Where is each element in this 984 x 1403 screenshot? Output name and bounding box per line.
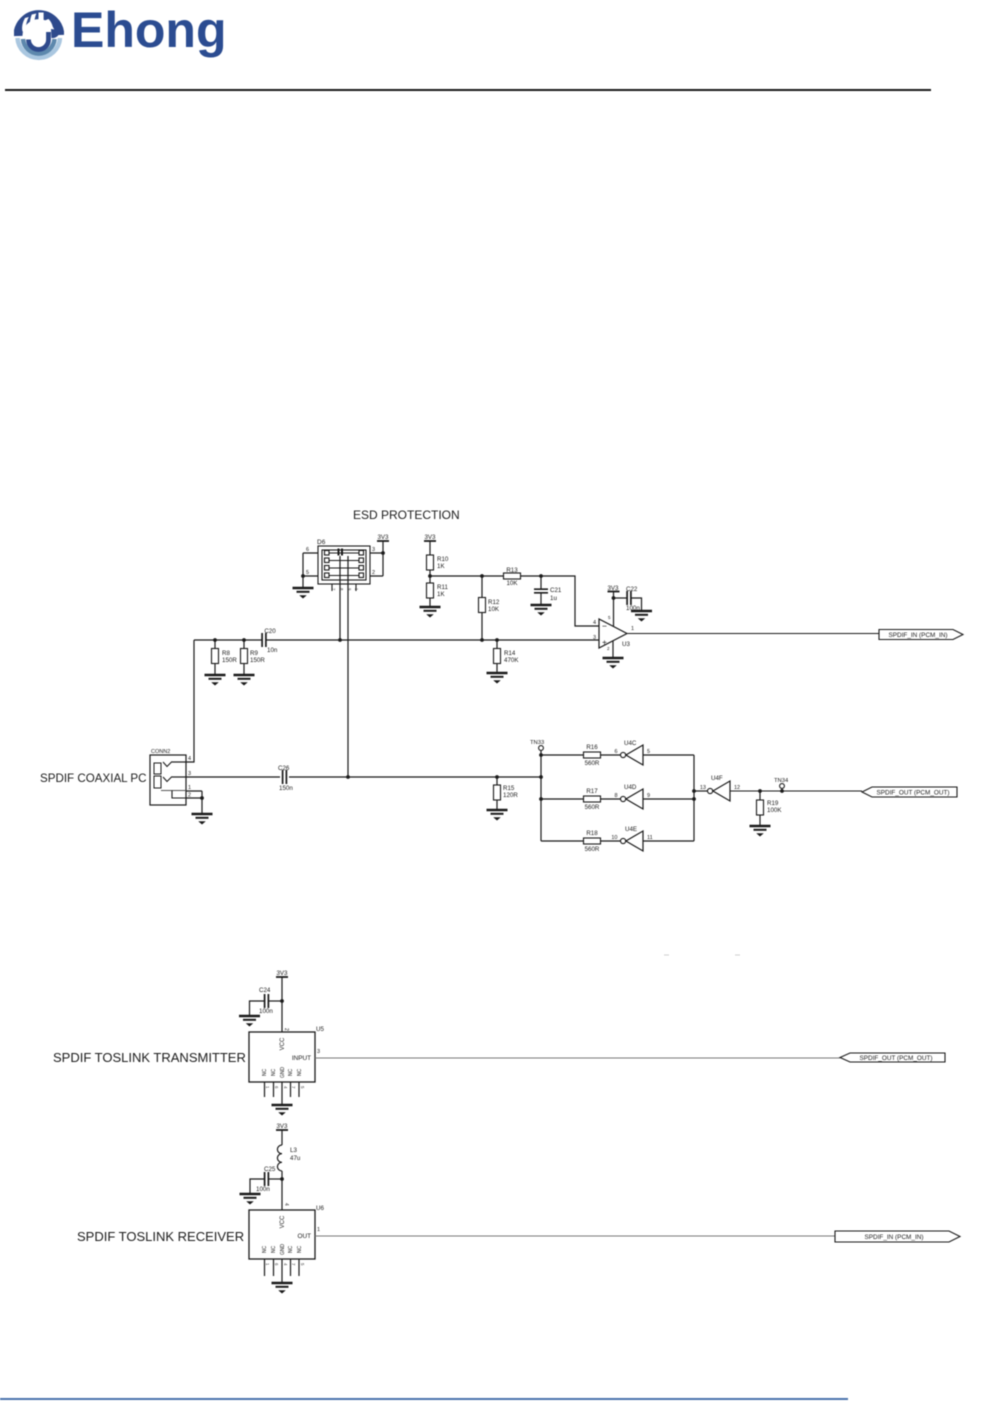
svg-text:100K: 100K	[767, 807, 782, 814]
svg-text:7: 7	[291, 1263, 296, 1266]
svg-text:R8: R8	[222, 650, 230, 657]
resistor R19	[757, 791, 783, 826]
stray mark 2	[735, 954, 740, 956]
ground R11	[420, 607, 441, 618]
node U5 vcc	[280, 999, 284, 1003]
svg-text:SPDIF TOSLINK TRANSMITTER: SPDIF TOSLINK TRANSMITTER	[53, 1050, 246, 1065]
node R12 top	[480, 574, 484, 578]
U5 bottom pin numbers	[265, 1086, 305, 1089]
capacitor C21	[534, 576, 562, 605]
U6 bottom pins	[265, 1259, 300, 1283]
wire D6 left pins	[303, 553, 318, 588]
node R9	[242, 638, 246, 642]
node U6 vcc	[280, 1177, 284, 1181]
U5 bottom pins	[265, 1082, 300, 1105]
svg-text:1K: 1K	[437, 591, 445, 598]
svg-text:SPDIF_OUT (PCM_OUT): SPDIF_OUT (PCM_OUT)	[859, 1055, 932, 1062]
top rule	[5, 89, 931, 91]
svg-text:12: 12	[734, 785, 740, 791]
svg-text:8: 8	[614, 793, 617, 799]
svg-text:560R: 560R	[585, 760, 600, 767]
ground U5	[272, 1105, 293, 1116]
net flag SPDIF_OUT (PCM_OUT)	[862, 787, 957, 797]
svg-text:100n: 100n	[256, 1186, 270, 1193]
svg-text:R11: R11	[437, 584, 448, 591]
node R8	[213, 638, 217, 642]
capacitor C20	[262, 628, 278, 654]
resistor R18	[584, 830, 601, 853]
net flag SPDIF_IN (PCM_IN)	[879, 630, 963, 640]
ground R15	[487, 810, 508, 821]
wire R13 to comparator minus	[521, 576, 600, 626]
capacitor C26	[278, 765, 293, 792]
svg-text:10K: 10K	[506, 580, 518, 587]
svg-text:13: 13	[700, 785, 706, 791]
power 3V3 (U5)	[276, 970, 288, 1032]
svg-text:NC: NC	[288, 1245, 294, 1253]
ground D6	[293, 588, 314, 599]
svg-text:NC: NC	[297, 1245, 303, 1253]
svg-text:11: 11	[647, 835, 653, 841]
svg-text:6: 6	[614, 749, 617, 755]
capacitor C24	[250, 987, 283, 1016]
svg-text:9: 9	[647, 793, 650, 799]
svg-text:NC: NC	[271, 1245, 277, 1253]
svg-text:1: 1	[265, 1086, 270, 1089]
ground R19	[750, 826, 771, 837]
svg-text:1: 1	[265, 1263, 270, 1266]
svg-text:10: 10	[611, 835, 617, 841]
svg-text:560R: 560R	[585, 846, 600, 853]
svg-text:OUT: OUT	[298, 1233, 312, 1240]
wire lower signal net right part	[289, 776, 541, 778]
svg-text:GND: GND	[280, 1067, 286, 1079]
node R19 top	[758, 789, 762, 793]
logo icon	[14, 8, 64, 64]
wire U3 output to flag	[627, 633, 879, 635]
CONN2 pin numbers	[188, 756, 191, 799]
U6 bottom NC/GND labels	[262, 1244, 303, 1256]
node upper net / D6 branch	[338, 638, 342, 642]
wire upper signal net left part	[194, 639, 262, 641]
test point TN33	[530, 740, 544, 750]
svg-text:10n: 10n	[267, 647, 278, 654]
node lower net / D6 branch	[346, 775, 350, 779]
svg-text:NC: NC	[297, 1068, 303, 1076]
svg-text:4: 4	[188, 756, 191, 762]
ground C21	[531, 605, 552, 616]
svg-text:3V3: 3V3	[377, 534, 389, 541]
svg-text:SPDIF_IN (PCM_IN): SPDIF_IN (PCM_IN)	[889, 632, 948, 639]
capacitor C25	[250, 1166, 282, 1194]
svg-text:5: 5	[647, 749, 650, 755]
wire CONN2 pins 1,2 to ground	[186, 791, 202, 814]
ground R8	[205, 675, 226, 686]
svg-text:2: 2	[372, 570, 375, 576]
svg-text:SPDIF TOSLINK RECEIVER: SPDIF TOSLINK RECEIVER	[77, 1229, 244, 1244]
node R15 top	[495, 775, 499, 779]
inverter U4D	[614, 784, 650, 809]
node R14 top	[495, 638, 499, 642]
wire bus to U4F	[694, 790, 708, 792]
ground C24	[239, 1016, 260, 1027]
svg-text:150R: 150R	[250, 657, 265, 664]
inverter U4F	[700, 775, 740, 801]
svg-text:R17: R17	[586, 788, 598, 795]
wire R17 to U4D	[601, 798, 621, 800]
resistor R8	[212, 640, 238, 675]
resistor R11	[427, 583, 449, 607]
svg-text:7: 7	[291, 1086, 296, 1089]
inverter U4C	[614, 740, 650, 765]
svg-text:U4D: U4D	[624, 784, 637, 791]
svg-text:R19: R19	[767, 800, 779, 807]
svg-text:6: 6	[274, 1263, 279, 1266]
svg-text:1u: 1u	[550, 595, 557, 602]
svg-text:−: −	[602, 621, 607, 631]
svg-text:3: 3	[188, 771, 191, 777]
svg-text:C25: C25	[264, 1166, 276, 1173]
svg-text:560R: 560R	[585, 804, 600, 811]
svg-text:R10: R10	[437, 556, 449, 563]
op-amp U3	[599, 619, 630, 648]
wire upper net down to CONN2 pin4	[186, 640, 194, 762]
svg-text:ESD PROTECTION: ESD PROTECTION	[353, 508, 460, 522]
ground R9	[234, 675, 255, 686]
ground R14	[487, 673, 508, 684]
ground C25	[240, 1194, 261, 1205]
IC U5	[249, 1026, 324, 1082]
svg-text:4: 4	[283, 1086, 288, 1089]
power 3V3 (U6)	[276, 1123, 288, 1145]
resistor R13	[504, 567, 521, 587]
test point TN34	[774, 778, 789, 793]
svg-text:2: 2	[283, 1028, 289, 1031]
ground U6	[272, 1283, 293, 1294]
svg-text:C22: C22	[626, 586, 638, 593]
node bus U4D row	[692, 797, 696, 801]
svg-text:U5: U5	[316, 1026, 324, 1033]
IC U6	[249, 1205, 324, 1259]
D6 pin numbers	[306, 547, 375, 576]
node D6 pin3	[381, 551, 385, 555]
wire mid branch	[541, 798, 584, 800]
svg-text:3V3: 3V3	[276, 1123, 288, 1130]
inverter U4E	[611, 826, 652, 851]
svg-text:NC: NC	[262, 1068, 268, 1076]
svg-text:NC: NC	[271, 1068, 277, 1076]
svg-text:6: 6	[274, 1086, 279, 1089]
resistor R14	[494, 640, 520, 673]
svg-text:1: 1	[188, 785, 191, 791]
svg-text:150R: 150R	[222, 657, 237, 664]
U3 pin numbers	[593, 615, 634, 651]
svg-text:NC: NC	[262, 1245, 268, 1253]
wire R16 to U4C	[601, 754, 621, 756]
svg-text:R9: R9	[250, 650, 258, 657]
ground U3	[603, 641, 624, 669]
wire D6 bottom to upper net	[339, 556, 341, 641]
svg-text:U4F: U4F	[711, 775, 723, 782]
svg-text:1K: 1K	[437, 563, 445, 570]
svg-text:C24: C24	[259, 987, 271, 994]
ground C22	[631, 611, 652, 622]
svg-text:NC: NC	[288, 1068, 294, 1076]
node C21 top	[539, 574, 543, 578]
svg-text:100n: 100n	[259, 1008, 273, 1015]
svg-text:4: 4	[283, 1263, 288, 1266]
wire U4D out	[643, 798, 694, 800]
power 3V3 (D6)	[377, 534, 389, 541]
svg-text:C20: C20	[264, 628, 276, 635]
svg-text:R14: R14	[504, 650, 516, 657]
wire lower signal net left part	[186, 776, 280, 778]
svg-text:SPDIF_IN (PCM_IN): SPDIF_IN (PCM_IN)	[865, 1234, 924, 1241]
wire U4F out to flag	[730, 790, 862, 792]
wire L3 to U6	[281, 1171, 283, 1210]
svg-text:R13: R13	[506, 567, 518, 574]
wire branch vertical	[540, 751, 542, 842]
svg-text:CONN2: CONN2	[151, 749, 170, 755]
svg-text:5: 5	[608, 615, 611, 620]
node U3 vcc	[612, 596, 616, 600]
node branch main	[539, 775, 543, 779]
svg-text:U4E: U4E	[625, 826, 637, 833]
svg-text:R18: R18	[586, 830, 598, 837]
svg-text:4: 4	[593, 620, 596, 626]
svg-text:10K: 10K	[488, 606, 500, 613]
power 3V3 (R10)	[424, 534, 436, 555]
svg-text:TN34: TN34	[774, 778, 789, 784]
svg-text:4: 4	[283, 1203, 289, 1206]
U5 bottom NC/GND labels	[262, 1067, 303, 1079]
wire D6 bottom to lower net	[347, 556, 349, 777]
wire bottom branch	[541, 840, 584, 842]
svg-text:TN33: TN33	[530, 740, 544, 746]
svg-text:5: 5	[300, 1086, 305, 1089]
svg-text:U6: U6	[316, 1205, 324, 1212]
U6 bottom pin numbers	[265, 1263, 305, 1266]
svg-text:GND: GND	[280, 1244, 286, 1256]
svg-text:47u: 47u	[290, 1155, 301, 1162]
resistor R12	[479, 576, 500, 640]
resistor R17	[584, 788, 601, 811]
node branch top	[539, 753, 543, 757]
D6 bottom pin digits	[331, 588, 359, 591]
node R10/R11	[428, 574, 432, 578]
svg-text:VCC: VCC	[280, 1037, 286, 1050]
svg-text:1: 1	[631, 626, 634, 632]
svg-text:3: 3	[317, 1049, 320, 1055]
svg-text:150n: 150n	[279, 785, 293, 792]
svg-text:SPDIF_OUT (PCM_OUT): SPDIF_OUT (PCM_OUT)	[876, 790, 949, 797]
svg-text:SPDIF COAXIAL PC: SPDIF COAXIAL PC	[40, 772, 147, 785]
svg-text:6: 6	[306, 547, 309, 553]
svg-text:3: 3	[372, 547, 375, 553]
svg-text:U3: U3	[622, 641, 630, 648]
svg-text:120R: 120R	[503, 792, 518, 799]
capacitor C22	[614, 586, 642, 612]
stray mark 1	[664, 954, 669, 956]
svg-text:R16: R16	[586, 744, 598, 751]
node D6 pin5	[301, 574, 305, 578]
net flag SPDIF_IN (PCM_IN) toslink	[835, 1231, 960, 1242]
wire U4C out	[643, 754, 694, 756]
resistor R15	[494, 777, 519, 810]
resistor R9	[241, 640, 266, 675]
svg-text:1: 1	[317, 1227, 320, 1233]
node CONN2 pin2	[200, 796, 204, 800]
wire D6 right pins	[370, 541, 383, 576]
svg-text:R12: R12	[488, 599, 500, 606]
ESD array D6	[318, 546, 370, 591]
svg-text:470K: 470K	[504, 657, 519, 664]
net flag SPDIF_OUT (PCM_OUT) toslink	[840, 1053, 945, 1062]
node R12 bottom	[480, 638, 484, 642]
svg-text:D6: D6	[317, 539, 326, 546]
svg-text:3V3: 3V3	[276, 970, 288, 977]
wire U6 output to flag	[315, 1235, 835, 1237]
wire U5 output to flag	[315, 1057, 840, 1059]
svg-text:U4C: U4C	[624, 740, 637, 747]
svg-text:3V3: 3V3	[424, 534, 436, 541]
svg-text:R15: R15	[503, 785, 515, 792]
power 3V3 (U3)	[607, 585, 619, 627]
wire U4E out	[643, 840, 694, 842]
node bus U4F row	[692, 789, 696, 793]
ground CONN2	[192, 814, 213, 825]
connector CONN2	[150, 755, 186, 805]
svg-text:VCC: VCC	[280, 1215, 286, 1228]
svg-text:5: 5	[306, 570, 309, 576]
logo text	[71, 5, 227, 55]
svg-text:2: 2	[607, 646, 610, 651]
wire R18 to U4E	[601, 840, 621, 842]
svg-text:L3: L3	[290, 1147, 297, 1154]
svg-text:C26: C26	[278, 765, 290, 772]
wire upper signal net right part	[266, 639, 599, 641]
resistor R16	[584, 744, 601, 767]
svg-text:INPUT: INPUT	[292, 1055, 311, 1062]
resistor R10	[427, 555, 449, 583]
node branch mid	[539, 797, 543, 801]
inductor L3	[277, 1145, 300, 1171]
bottom rule	[0, 1398, 848, 1400]
wire output bus	[693, 755, 695, 841]
wire top branch	[541, 754, 584, 756]
svg-text:C21: C21	[550, 587, 562, 594]
svg-text:5: 5	[300, 1263, 305, 1266]
wire node to R13	[430, 575, 504, 577]
